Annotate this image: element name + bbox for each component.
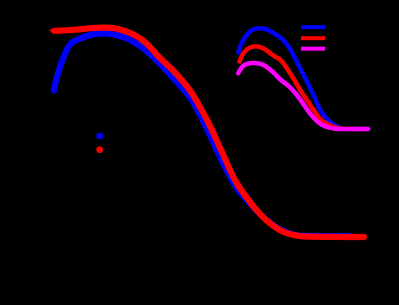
- inset curve red: [240, 46, 365, 129]
- main curve red: [54, 28, 364, 237]
- main curve red left pointed tip: [49, 27, 57, 34]
- inset curve magenta: [238, 63, 368, 129]
- inset curve blue: [238, 28, 368, 129]
- inset legend bar red: [301, 36, 325, 40]
- main curve blue: [54, 33, 350, 236]
- inset legend bar blue: [301, 25, 325, 29]
- legend marker red dot: [96, 146, 103, 153]
- legend marker blue dot: [96, 133, 103, 140]
- inset legend bar magenta: [301, 47, 325, 51]
